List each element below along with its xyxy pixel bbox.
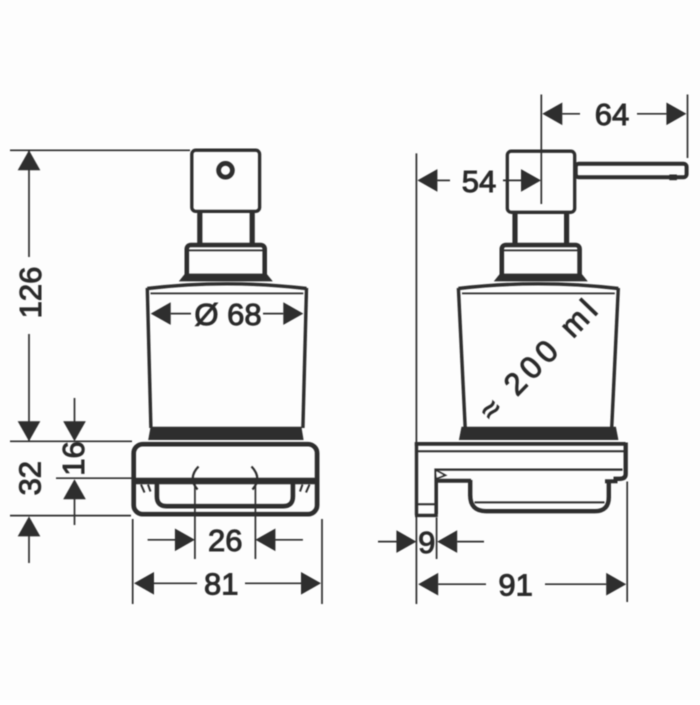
pump neck (front)	[197, 212, 202, 246]
tray inner bottom line (side)	[475, 501, 605, 503]
hidden hole arc left (front)	[193, 467, 199, 490]
svg-text:9: 9	[418, 525, 435, 560]
tray rim left segment (side)	[438, 479, 471, 483]
svg-text:126: 126	[13, 267, 48, 319]
bracket right end (side)	[614, 443, 626, 479]
dim diameter 68 arrow left	[151, 302, 171, 325]
wall plate left edge (side)	[415, 443, 418, 516]
pump head (side)	[507, 151, 574, 212]
bracket arm bottom line (side)	[438, 469, 623, 471]
bracket inner top line (side)	[418, 450, 625, 452]
dim extension line bracket top	[10, 440, 132, 442]
glass bottom base (front)	[148, 427, 303, 440]
dim 91 arrows	[418, 573, 438, 596]
collar inner line (side)	[504, 249, 578, 251]
dim 126 line	[28, 151, 30, 257]
glass body (side)	[458, 284, 618, 289]
svg-text:32: 32	[13, 461, 48, 495]
svg-text:54: 54	[462, 164, 496, 199]
pump axis line	[540, 95, 542, 205]
svg-text:16: 16	[56, 441, 91, 475]
dim diameter 68 arrow right	[283, 302, 303, 325]
dim 126/32 arrow down	[18, 421, 41, 441]
svg-text:91: 91	[498, 568, 532, 603]
ring shelf band (front)	[136, 478, 316, 484]
dim 81 arrows	[134, 572, 154, 595]
dim 26 arrows	[148, 539, 176, 541]
svg-text:26: 26	[208, 523, 242, 558]
glass tray (front)	[157, 483, 293, 506]
svg-text:81: 81	[204, 567, 238, 602]
dim 126 extension line top	[10, 149, 190, 151]
pump head (front)	[192, 150, 260, 211]
pump hole (front)	[219, 163, 233, 177]
spout nozzle	[669, 175, 677, 181]
collar base flare (side)	[494, 274, 588, 282]
dim 9 extension right	[436, 518, 438, 560]
svg-text:Ø 68: Ø 68	[194, 297, 261, 332]
wall reference line	[415, 153, 417, 604]
holder bracket (side): top edge	[415, 442, 626, 446]
corner pointer triangle (side)	[435, 470, 445, 479]
pump collar (side)	[502, 245, 580, 278]
dim 91 extension right	[626, 482, 628, 603]
spout (side)	[576, 164, 687, 177]
dim 16 arrow down	[63, 421, 86, 441]
ring side hatch left	[141, 485, 145, 493]
hidden hole arc right (front)	[252, 467, 258, 490]
glass body (front)	[147, 284, 306, 289]
collar base flare (front)	[179, 274, 273, 282]
dim 16 arrow up	[63, 479, 86, 499]
pump neck (side)	[512, 212, 517, 246]
wall plate right edge (side)	[434, 469, 438, 515]
dim 64 extension right	[687, 95, 689, 159]
glass inner rim line (front)	[151, 292, 304, 294]
pump collar (front)	[187, 245, 265, 278]
dim 26 extension lines	[194, 480, 196, 559]
dim 81 extension lines	[132, 519, 134, 604]
dim extension line bracket bottom	[10, 515, 131, 517]
glass tray (side)	[470, 480, 609, 511]
tray rim right segment (side)	[605, 479, 618, 483]
glass bottom base (side)	[459, 427, 619, 440]
dim 54 arrow left	[417, 169, 437, 192]
holder bracket outer (front)	[134, 444, 317, 514]
glass inner rim line (side)	[462, 292, 615, 294]
dim 9 arrows	[378, 541, 397, 543]
dim 126 arrow up	[18, 150, 41, 170]
wall plate bottom (side)	[415, 514, 438, 517]
ring side hatch right	[306, 485, 310, 493]
dim 54 arrow right	[521, 169, 541, 192]
collar inner line (front)	[189, 249, 263, 251]
wall plate inner line (side)	[418, 503, 436, 505]
dim 32 arrow up (below)	[18, 516, 41, 536]
dim 64 line/arrows	[542, 103, 562, 126]
dim extension line shelf	[56, 477, 134, 479]
svg-text:64: 64	[595, 97, 629, 132]
dim 16 line	[74, 398, 76, 422]
